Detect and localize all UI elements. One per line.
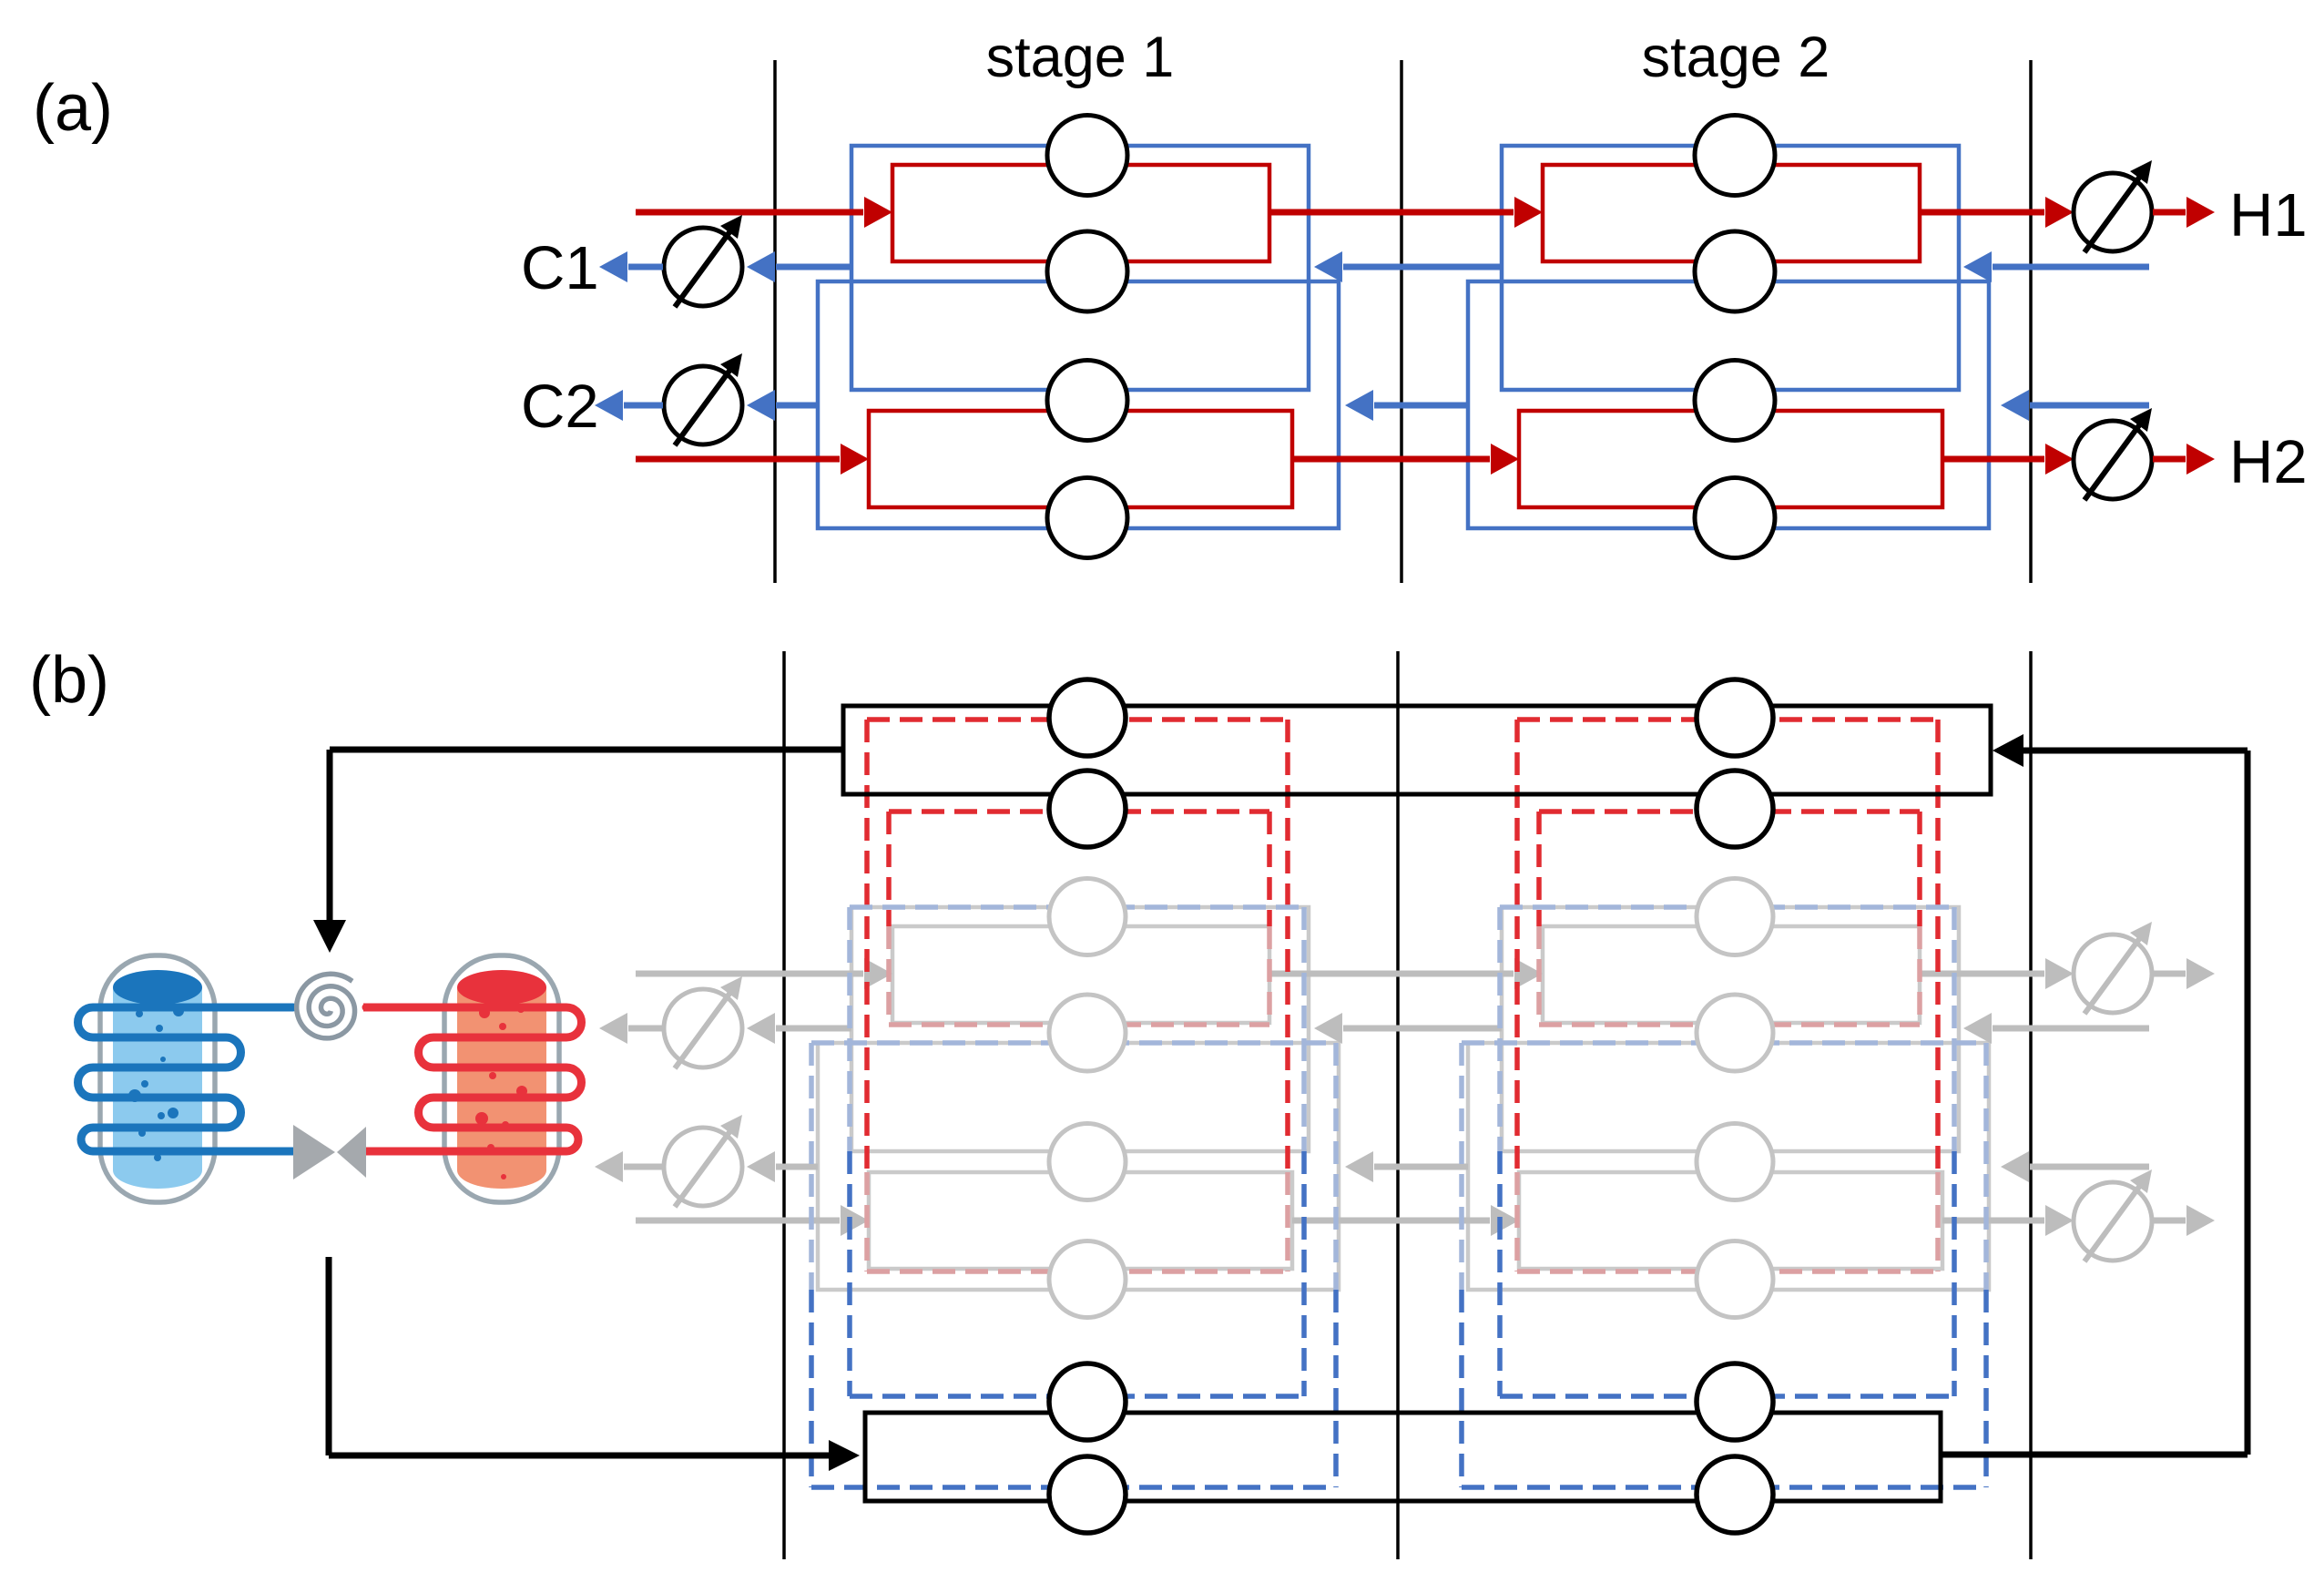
- faded C2 split loop stage1 (b): [818, 1043, 1339, 1290]
- hot stream H1 split loop stage2 (a): [1543, 165, 1920, 261]
- storage fluid top loop (b): [843, 706, 1991, 794]
- faded C2 split loop stage2 (b): [1468, 1043, 1989, 1290]
- faded H2 split loop stage2 (b): [1519, 1172, 1942, 1269]
- heat exchanger circle stage2 row2 (a): [1695, 231, 1775, 311]
- faded H2 split loop stage1 (b): [869, 1172, 1292, 1269]
- cold stream C2 split loop stage1 (a): [818, 281, 1339, 528]
- svg-text:H2: H2: [2229, 428, 2308, 496]
- faded H1 split loop stage2 (b): [1543, 926, 1920, 1023]
- hot stream H2 interstage line (a): [1292, 456, 1490, 463]
- faded hot stream H2 lines (b): [636, 1218, 840, 1224]
- hot stream H2 inlet line (a): [636, 456, 840, 463]
- hot stream H2 outlet line (a): [1942, 456, 2044, 463]
- faded exchanger circles x=1194 (b): [1049, 879, 1126, 955]
- heat exchanger circle stage2 row3 (a): [1695, 361, 1775, 441]
- hot stream H1 split loop stage1 (a): [892, 165, 1269, 261]
- faded cold stream C2 lines (b): [2030, 1164, 2149, 1170]
- faded flow meter H2 (b): [2074, 1182, 2152, 1261]
- svg-text:stage 1: stage 1: [986, 26, 1175, 89]
- throttle valve (b): [293, 1125, 335, 1179]
- svg-text:C2: C2: [521, 373, 599, 441]
- svg-text:(a): (a): [33, 72, 113, 145]
- storage circuit line valve to bottom loop (b): [326, 1257, 332, 1455]
- faded cold stream C1 lines (b): [1993, 1026, 2149, 1032]
- cold storage tank (b): [78, 955, 294, 1202]
- dashed relocated H2 loop stage2 (b): [1517, 717, 1938, 722]
- dashed relocated H1 loop stage1 (b): [889, 809, 1269, 814]
- flow meter C1 (a): [664, 228, 742, 306]
- stage boundary line right (b): [2029, 651, 2033, 1559]
- heat exchanger circle stage1 row1 (a): [1047, 116, 1127, 196]
- flow meter C2 (a): [664, 366, 742, 444]
- stage boundary line left (b): [782, 651, 786, 1559]
- faded H1 split loop stage1 (b): [892, 926, 1269, 1023]
- heat exchanger circle stage1 row2 (a): [1047, 231, 1127, 311]
- storage circuit return line right (b): [1941, 1452, 2248, 1458]
- svg-text:stage 2: stage 2: [1642, 26, 1830, 89]
- hot storage tank (b): [366, 955, 582, 1202]
- cold stream C2 interstage line (a): [1374, 403, 1468, 409]
- stage boundary line middle (a): [1400, 60, 1403, 583]
- cold stream C2 split loop stage2 (a): [1468, 281, 1989, 528]
- flow meter H2 (a): [2074, 421, 2152, 499]
- svg-text:C1: C1: [521, 234, 599, 302]
- faded flow meter C2 (b): [664, 1128, 742, 1206]
- hot stream H1 inlet line (a): [636, 209, 863, 216]
- storage loop exchanger circles x=1194 (b): [1049, 679, 1126, 756]
- cold line tank to valve (b): [215, 1148, 293, 1156]
- hot line pump to tank (b): [363, 1004, 444, 1012]
- stage boundary line left (a): [773, 60, 777, 583]
- heat exchanger circle stage1 row3 (a): [1047, 361, 1127, 441]
- hot stream H1 final arrow (a): [2153, 209, 2186, 216]
- hot stream H1 interstage line (a): [1269, 209, 1514, 216]
- storage loop exchanger circles x=1905 (b): [1697, 679, 1773, 756]
- faded C1 split loop stage1 (b): [851, 907, 1309, 1151]
- cold stream C1 split loop stage2 (a): [1502, 146, 1959, 390]
- hot stream H2 split loop stage1 (a): [869, 411, 1292, 507]
- dashed relocated H2 loop stage1 (b): [867, 717, 1288, 722]
- faded flow meter C1 (b): [664, 989, 742, 1067]
- hot stream H1 outlet line (a): [1920, 209, 2044, 216]
- cold stream C2 outlet line (a): [776, 403, 818, 409]
- heat exchanger circle stage1 row4 (a): [1047, 478, 1127, 558]
- faded flow meter H1 (b): [2074, 934, 2152, 1013]
- storage circuit feed line to top loop (b): [330, 747, 843, 753]
- svg-text:H1: H1: [2229, 181, 2308, 250]
- stage boundary line middle (b): [1396, 651, 1400, 1559]
- faded hot stream H1 lines (b): [636, 971, 863, 977]
- cold stream C2 inlet line (a): [2030, 403, 2149, 409]
- heat exchanger circle stage2 row1 (a): [1695, 116, 1775, 196]
- cold stream C1 split loop stage1 (a): [851, 146, 1309, 390]
- cold stream C1 final arrow (a): [628, 264, 663, 271]
- faded C1 split loop stage2 (b): [1502, 907, 1959, 1151]
- dashed relocated H1 loop stage2 (b): [1539, 809, 1920, 814]
- cold stream C1 inlet line (a): [1993, 264, 2149, 271]
- cold stream C1 interstage line (a): [1343, 264, 1502, 271]
- cold stream C1 outlet line (a): [776, 264, 851, 271]
- storage circuit down line to pump (b): [327, 750, 333, 920]
- flow meter H1 (a): [2074, 173, 2152, 251]
- hot line valve to tank (b): [366, 1148, 444, 1156]
- svg-text:(b): (b): [29, 644, 109, 717]
- dashed relocated C2 loop stage1 (b): [811, 1040, 1336, 1046]
- dashed relocated C2 loop stage2 (b): [1462, 1040, 1986, 1046]
- hot stream H2 split loop stage2 (a): [1519, 411, 1942, 507]
- dashed relocated C1 loop stage1 (b): [850, 904, 1304, 910]
- heat exchanger circle stage2 row4 (a): [1695, 478, 1775, 558]
- stage boundary line right (a): [2029, 60, 2033, 583]
- dashed relocated C1 loop stage2 (b): [1500, 904, 1954, 910]
- storage fluid bottom loop (b): [865, 1413, 1941, 1501]
- faded exchanger circles x=1905 (b): [1697, 879, 1773, 955]
- cold line tank to pump (b): [215, 1004, 291, 1012]
- cold stream C2 final arrow (a): [624, 403, 663, 409]
- hot stream H2 final arrow (a): [2153, 456, 2186, 463]
- circulation pump spiral (b): [297, 974, 355, 1038]
